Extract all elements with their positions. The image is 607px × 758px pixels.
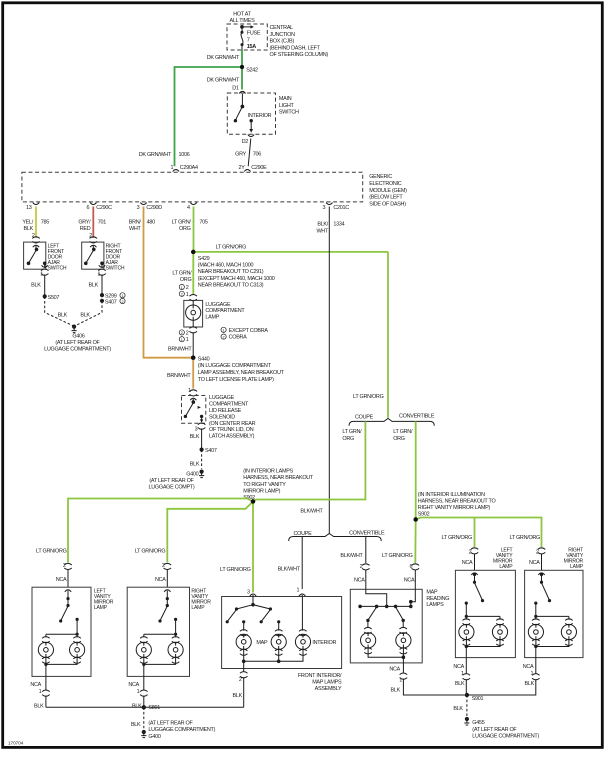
svg-text:SOLENOID: SOLENOID [209, 414, 235, 420]
front interior internals [226, 595, 307, 636]
main light switch pin D1 [232, 86, 245, 94]
wire LT GRN/ORG S902 to left vanity lamp [36, 499, 253, 563]
svg-text:(IN LUGGAGE COMPARTMENT: (IN LUGGAGE COMPARTMENT [198, 363, 272, 369]
GEM pin 6 C290C [86, 203, 112, 211]
svg-text:LT GRN/ORG: LT GRN/ORG [509, 535, 540, 541]
svg-text:GRY/: GRY/ [78, 219, 91, 225]
svg-text:SWITCH: SWITCH [48, 265, 67, 271]
svg-text:CENTRAL: CENTRAL [270, 25, 294, 31]
convertible right vanity pin 2 [529, 548, 545, 571]
pin 2Y connector C290E at GEM [239, 165, 268, 172]
wire BLK solenoid to S407 [190, 429, 202, 450]
svg-text:BLK: BLK [131, 722, 141, 728]
svg-text:(AT LEFT REAR OF: (AT LEFT REAR OF [55, 340, 100, 346]
main light switch label [279, 96, 299, 116]
front interior pin 2 exit [233, 661, 248, 707]
svg-text:BLK: BLK [34, 703, 44, 709]
svg-text:(MACH 460, MACH 1000: (MACH 460, MACH 1000 [198, 263, 254, 269]
luggage compartment lamp box [184, 300, 203, 327]
svg-text:COMPARTMENT: COMPARTMENT [205, 308, 245, 314]
wire BLK dashed to G406 [45, 296, 74, 326]
svg-text:MAP: MAP [426, 590, 438, 596]
right vanity pin 1 exit [128, 664, 147, 709]
svg-text:OF STEERING COLUMN): OF STEERING COLUMN) [270, 52, 329, 58]
svg-text:BRN/WHT: BRN/WHT [167, 373, 191, 379]
svg-text:BLK: BLK [58, 313, 68, 319]
svg-text:C290E: C290E [251, 165, 267, 171]
wire LT GRN/ORG S429 to luggage lamp [172, 252, 193, 295]
svg-text:NCA: NCA [523, 664, 534, 670]
svg-text:3: 3 [195, 426, 198, 432]
svg-text:INTERIOR: INTERIOR [312, 640, 336, 646]
left vanity pin 2 [56, 563, 72, 587]
map reading pin 1 exit [389, 663, 464, 695]
wire BLK dashed to G406 [75, 301, 102, 326]
svg-text:S901: S901 [472, 696, 484, 702]
GEM pin 13 [26, 203, 39, 211]
svg-text:BLK: BLK [455, 681, 465, 687]
harness split coupe/convertible green [349, 413, 435, 425]
svg-text:BLK: BLK [24, 226, 34, 232]
svg-text:ORG: ORG [393, 436, 405, 442]
svg-text:S507: S507 [48, 295, 60, 301]
svg-text:NEAR BREAKOUT TO C291): NEAR BREAKOUT TO C291) [198, 269, 264, 275]
luggage lamp top connector [189, 295, 197, 301]
svg-text:READING: READING [426, 596, 449, 602]
svg-text:LT GRN/ORG: LT GRN/ORG [36, 549, 67, 555]
svg-text:BLK: BLK [233, 693, 243, 699]
svg-text:NCA: NCA [462, 560, 473, 566]
GEM label [369, 174, 407, 207]
svg-text:(EXCEPT MACH 460, MACH 1000: (EXCEPT MACH 460, MACH 1000 [198, 276, 275, 282]
svg-text:BLK: BLK [391, 688, 401, 694]
svg-text:2: 2 [223, 335, 225, 339]
svg-text:LT GRN/: LT GRN/ [342, 429, 362, 435]
wire BRN/WHT S440 to solenoid [167, 358, 193, 389]
svg-text:G455: G455 [472, 720, 484, 726]
wire branch to convertible left vanity [441, 518, 474, 548]
map reading lamps label [426, 590, 449, 608]
svg-text:2: 2 [181, 293, 183, 297]
svg-text:LAMPS: LAMPS [426, 602, 444, 608]
svg-text:LT GRN/ORG: LT GRN/ORG [135, 549, 166, 555]
svg-text:G400: G400 [186, 471, 198, 477]
svg-text:SIDE OF DASH): SIDE OF DASH) [369, 201, 406, 207]
svg-text:WHT: WHT [316, 228, 328, 234]
pin 1 connector C290A4 at GEM [170, 165, 198, 172]
wire GRY 706 to GEM [235, 139, 261, 167]
svg-text:MAP LAMPS: MAP LAMPS [312, 680, 342, 686]
svg-text:BLK: BLK [453, 706, 463, 712]
svg-text:BLK: BLK [190, 434, 200, 440]
svg-text:HOT AT: HOT AT [233, 11, 251, 17]
front interior map lamps label [298, 673, 342, 692]
wire DK GRN/WHT S242 to main light switch [207, 67, 242, 90]
left door switch internals [27, 245, 48, 268]
luggage lamp alt pin labels top [179, 284, 189, 297]
convertible left vanity mirror lamp box [455, 570, 515, 657]
svg-text:1: 1 [186, 292, 189, 298]
splice S407 trunk [200, 448, 217, 455]
svg-text:NCA: NCA [354, 578, 365, 584]
svg-text:D2: D2 [242, 139, 249, 145]
lamp bottom connectors [42, 639, 573, 663]
splice dot overlays [191, 65, 418, 522]
wire BLK dashed to G400 [190, 450, 202, 469]
svg-text:2Y: 2Y [239, 165, 246, 171]
svg-text:C290A4: C290A4 [180, 165, 198, 171]
svg-text:BLK/WHT: BLK/WHT [300, 509, 323, 515]
splice S242 [240, 65, 258, 73]
svg-text:ALL TIMES: ALL TIMES [230, 18, 256, 24]
svg-text:(BEHIND DASH, LEFT: (BEHIND DASH, LEFT [270, 45, 321, 51]
splice S901 [465, 693, 484, 702]
fuse label [247, 31, 261, 51]
svg-text:DK GRN/WHT: DK GRN/WHT [207, 55, 240, 61]
wire BRN/WHT lamp to S440 [168, 332, 193, 358]
main light switch dashed box [227, 93, 275, 134]
svg-text:1: 1 [399, 677, 402, 683]
svg-text:1334: 1334 [333, 222, 344, 228]
svg-text:1006: 1006 [179, 152, 190, 158]
GEM pin 3 C290D [137, 203, 163, 211]
svg-text:(ON CENTER REAR: (ON CENTER REAR [209, 421, 256, 427]
svg-text:SWITCH: SWITCH [279, 110, 299, 116]
GEM pin 3 C201C [322, 203, 349, 211]
left vanity mirror lamp box [32, 587, 91, 676]
svg-text:S429: S429 [198, 256, 210, 262]
svg-text:LUGGAGE COMPT): LUGGAGE COMPT) [149, 484, 195, 490]
svg-text:HARNESS, NEAR BREAKOUT TO: HARNESS, NEAR BREAKOUT TO [418, 498, 496, 504]
wire BLK dashed to G400 bottom [131, 707, 144, 729]
legend except cobra / cobra [221, 327, 268, 341]
wire LT GRN/ORG coupe branch to S902 [253, 421, 365, 501]
convertible left vanity pin 1 exit [453, 647, 470, 696]
svg-text:S242: S242 [246, 67, 258, 73]
wire BLK/WHT 1334 [300, 207, 344, 534]
GEM pin 4 [187, 203, 197, 211]
svg-text:6: 6 [86, 205, 89, 211]
left front door ajar switch box [24, 242, 46, 269]
svg-text:701: 701 [98, 219, 106, 225]
svg-text:1: 1 [39, 689, 42, 695]
svg-text:DK GRN/WHT: DK GRN/WHT [139, 152, 172, 158]
svg-text:LT GRN/ORG: LT GRN/ORG [216, 245, 247, 251]
svg-text:2: 2 [186, 285, 189, 291]
front interior map lamps box [222, 597, 342, 669]
right door switch internals [84, 245, 105, 268]
svg-text:BLK: BLK [31, 283, 41, 289]
svg-text:(AT LEFT REAR OF: (AT LEFT REAR OF [149, 478, 194, 484]
svg-text:LUGGAGE COMPARTMENT): LUGGAGE COMPARTMENT) [44, 347, 111, 353]
svg-text:G400: G400 [148, 734, 160, 740]
svg-text:3: 3 [137, 205, 140, 211]
svg-text:785: 785 [41, 219, 49, 225]
wire LT GRN/ORG S902 to right vanity lamp [135, 502, 253, 563]
svg-text:LT GRN/: LT GRN/ [172, 219, 192, 225]
map reading lamps internals [358, 589, 415, 633]
convertible right vanity internals [532, 573, 573, 625]
svg-text:ORG: ORG [179, 226, 191, 232]
solenoid label [209, 395, 256, 439]
wire LT GRN/ORG convertible branch [393, 421, 416, 519]
solenoid internals [184, 398, 204, 422]
svg-text:G406: G406 [72, 333, 84, 339]
svg-text:BLK: BLK [89, 283, 99, 289]
wire BLK dashed to G455 [453, 695, 467, 716]
svg-text:ORG: ORG [180, 277, 192, 283]
svg-text:LT GRN/ORG: LT GRN/ORG [220, 567, 251, 573]
svg-text:MODULE (GEM): MODULE (GEM) [369, 188, 407, 194]
svg-text:BLK: BLK [525, 681, 535, 687]
main light switch pin D2 [242, 135, 255, 145]
wire BRN/WHT 480 GEM to S440 [129, 207, 193, 358]
svg-text:FUSE: FUSE [247, 31, 261, 37]
right front door ajar switch box [82, 242, 104, 269]
right vanity pin 2 [155, 563, 171, 587]
svg-text:LUGGAGE COMPARTMENT): LUGGAGE COMPARTMENT) [148, 727, 215, 733]
wire DK GRN/WHT 1006 S242 to GEM [139, 67, 242, 166]
svg-text:C290C: C290C [96, 205, 112, 211]
svg-text:LAMP: LAMP [94, 605, 108, 611]
svg-text:LT GRN/ORG: LT GRN/ORG [441, 535, 472, 541]
svg-text:BLK: BLK [132, 703, 142, 709]
svg-text:WHT: WHT [129, 226, 141, 232]
svg-text:1: 1 [137, 689, 140, 695]
svg-text:RIGHT VANITY MIRROR LAMP): RIGHT VANITY MIRROR LAMP) [418, 505, 491, 511]
wire LT GRN/ORG 705 GEM to S429 [172, 207, 208, 252]
convertible left vanity bulbs [459, 624, 508, 648]
left vanity label [94, 588, 114, 611]
svg-text:HARNESS, NEAR BREAKOUT: HARNESS, NEAR BREAKOUT [243, 475, 314, 481]
svg-text:BRN/: BRN/ [129, 219, 142, 225]
svg-text:LID RELEASE: LID RELEASE [209, 408, 242, 414]
wire BLK to S507 [31, 275, 45, 297]
wire BLK to S299 [89, 275, 102, 296]
svg-text:7: 7 [247, 37, 250, 43]
luggage compartment lamp label [205, 302, 245, 320]
svg-text:1: 1 [181, 286, 183, 290]
left vanity bulbs [38, 642, 84, 666]
svg-text:LAMP: LAMP [570, 564, 584, 570]
right door switch pin 2 [89, 233, 97, 243]
svg-text:CONVERTIBLE: CONVERTIBLE [349, 531, 385, 537]
svg-text:ELECTRONIC: ELECTRONIC [369, 181, 402, 187]
splice S507 [43, 294, 60, 301]
svg-text:CONVERTIBLE: CONVERTIBLE [399, 413, 435, 419]
svg-text:JUNCTION: JUNCTION [270, 32, 296, 38]
svg-text:13: 13 [26, 205, 32, 211]
solenoid pin 3 [195, 423, 206, 432]
svg-text:1: 1 [186, 337, 189, 343]
svg-text:LIGHT: LIGHT [279, 103, 295, 109]
svg-text:480: 480 [147, 219, 155, 225]
svg-text:BRN/WHT: BRN/WHT [168, 347, 192, 353]
svg-text:LT GRN/: LT GRN/ [172, 271, 192, 277]
svg-text:1: 1 [121, 294, 123, 298]
node HOT AT ALL TIMES [230, 11, 256, 24]
solenoid pin 1 [188, 388, 197, 396]
left vanity pin 1 exit [30, 664, 49, 709]
luggage lid release solenoid box [182, 396, 206, 424]
svg-text:(AT LEFT REAR OF: (AT LEFT REAR OF [148, 720, 193, 726]
ground G406 [44, 325, 111, 353]
svg-text:1: 1 [40, 271, 43, 277]
right vanity label [191, 588, 211, 611]
right vanity mirror lamp box [127, 587, 189, 676]
splice S902 interior lamps harness [243, 469, 314, 504]
svg-text:NCA: NCA [389, 666, 400, 672]
wire LT GRN/ORG S429 branch right [193, 245, 388, 252]
wire LT GRN/ORG S902 to map lamps assembly [220, 502, 253, 593]
splice S801 [142, 705, 161, 711]
wire DK GRN/WHT fuse to S242 [207, 50, 242, 67]
svg-text:DK GRN/WHT: DK GRN/WHT [207, 78, 240, 84]
svg-text:LUGGAGE: LUGGAGE [209, 395, 235, 401]
svg-text:TO LEFT LICENSE PLATE LAMP): TO LEFT LICENSE PLATE LAMP) [198, 377, 274, 383]
convertible left vanity internals [463, 573, 504, 625]
left door switch pin 2 [32, 233, 40, 243]
svg-text:BOX (CJB): BOX (CJB) [270, 39, 295, 45]
convertible right vanity label [564, 548, 584, 571]
svg-text:GRY: GRY [235, 152, 246, 158]
fuse F7 15A [241, 31, 244, 50]
svg-text:GENERIC: GENERIC [369, 174, 392, 180]
svg-text:LT GRN/: LT GRN/ [393, 429, 413, 435]
left door switch pin 1 [40, 269, 48, 277]
svg-text:COBRA: COBRA [229, 335, 248, 341]
switch INTERIOR position [248, 113, 272, 132]
right vanity internals [140, 590, 179, 643]
svg-text:1: 1 [296, 587, 299, 593]
ground G455 [464, 717, 539, 740]
svg-text:S440: S440 [198, 356, 210, 362]
svg-text:NCA: NCA [453, 664, 464, 670]
splice S440 [191, 356, 285, 383]
svg-text:(BELOW LEFT: (BELOW LEFT [369, 195, 403, 201]
front interior pin 3 [247, 590, 256, 596]
svg-text:15A: 15A [247, 44, 256, 50]
svg-text:NCA: NCA [155, 577, 166, 583]
ground G400 bottom [141, 720, 215, 739]
svg-text:LT GRN/ORG: LT GRN/ORG [353, 394, 384, 400]
right front door ajar switch label [106, 243, 125, 271]
GEM module dashed box [22, 172, 363, 202]
map reading pin 6 [404, 564, 419, 590]
svg-text:YEL/: YEL/ [22, 219, 33, 225]
left vanity internals [42, 590, 81, 643]
svg-text:LAMP: LAMP [205, 314, 219, 320]
svg-text:2: 2 [186, 330, 189, 336]
svg-text:LAMP ASSEMBLY, NEAR BREAKOUT: LAMP ASSEMBLY, NEAR BREAKOUT [198, 370, 285, 376]
wire feed inside CJB [240, 25, 254, 32]
svg-text:4: 4 [187, 205, 190, 211]
svg-text:COMPARTMENT: COMPARTMENT [209, 402, 249, 408]
convertible left vanity pin 2 [462, 548, 479, 571]
splice S902 interior illumination harness [414, 492, 496, 522]
svg-text:1: 1 [181, 338, 183, 342]
svg-text:NCA: NCA [30, 682, 41, 688]
svg-text:BLK/WHT: BLK/WHT [340, 553, 363, 559]
right vanity bulbs [136, 642, 183, 666]
svg-text:LT GRN/ORG: LT GRN/ORG [382, 553, 413, 559]
svg-text:INTERIOR: INTERIOR [248, 113, 272, 119]
svg-text:2: 2 [121, 300, 123, 304]
svg-text:OF TRUNK LID, ON: OF TRUNK LID, ON [209, 427, 254, 433]
svg-text:S801: S801 [148, 705, 160, 711]
luggage lamp bulb [186, 300, 201, 327]
svg-text:MAP: MAP [256, 640, 268, 646]
svg-text:705: 705 [199, 219, 207, 225]
svg-text:COUPE: COUPE [294, 531, 313, 537]
CJB label [270, 25, 329, 58]
svg-text:1: 1 [98, 271, 101, 277]
svg-text:LAMP: LAMP [191, 605, 205, 611]
svg-text:C290D: C290D [146, 205, 162, 211]
front interior pin 1 [296, 587, 305, 596]
svg-text:170704: 170704 [8, 741, 24, 746]
svg-text:ASSEMBLY: ASSEMBLY [315, 686, 342, 692]
main light switch internals [234, 94, 245, 123]
ground G400 trunk [149, 470, 205, 491]
svg-text:MAIN: MAIN [279, 96, 292, 102]
svg-text:BLK: BLK [80, 313, 90, 319]
svg-text:NCA: NCA [56, 577, 67, 583]
svg-text:SWITCH: SWITCH [106, 265, 125, 271]
svg-text:BLK/WHT: BLK/WHT [278, 567, 301, 573]
luggage lamp alt pin labels bottom [179, 330, 189, 343]
front interior lamp bulbs MAP and INTERIOR [236, 634, 336, 663]
luggage lamp bottom connector [189, 327, 197, 333]
svg-text:LATCH ASSEMBLY): LATCH ASSEMBLY) [209, 434, 255, 440]
ground bus to S801 [46, 706, 244, 708]
wire BLK/WHT coupe branch [278, 537, 303, 590]
svg-text:LUGGAGE COMPARTMENT): LUGGAGE COMPARTMENT) [472, 734, 539, 740]
svg-text:BLK: BLK [190, 462, 200, 468]
svg-text:2: 2 [181, 331, 183, 335]
wire BLK/WHT convertible map branch [340, 537, 365, 564]
convertible right vanity pin 1 exit [469, 647, 540, 696]
svg-text:3: 3 [322, 205, 325, 211]
svg-text:C201C: C201C [333, 205, 349, 211]
splice S299 [100, 293, 125, 300]
svg-text:(IN INTERIOR ILLUMINATION: (IN INTERIOR ILLUMINATION [418, 492, 485, 498]
splice S407 [100, 298, 125, 305]
svg-text:NCA: NCA [404, 578, 415, 584]
left front door ajar switch label [48, 243, 67, 271]
svg-text:706: 706 [253, 152, 261, 158]
svg-text:EXCEPT COBRA: EXCEPT COBRA [229, 328, 269, 334]
map reading pin 2 [354, 564, 370, 590]
svg-text:MIRROR LAMP): MIRROR LAMP) [243, 488, 280, 494]
svg-text:COUPE: COUPE [355, 415, 374, 421]
svg-text:1: 1 [223, 329, 225, 333]
wire LT GRN/ORG to convertible vanity lamps [416, 518, 542, 548]
svg-text:S407: S407 [105, 299, 117, 305]
wire LT GRN/ORG S902 to map reading lamps [382, 520, 416, 564]
svg-text:1: 1 [170, 165, 173, 171]
svg-text:NEAR BREAKOUT TO C313): NEAR BREAKOUT TO C313) [198, 282, 264, 288]
wire YEL/BLK 785 [22, 207, 49, 238]
svg-text:(IN INTERIOR LAMPS: (IN INTERIOR LAMPS [243, 469, 293, 475]
svg-text:2: 2 [239, 677, 242, 683]
harness split coupe/convertible black [289, 531, 385, 541]
svg-text:LAMP: LAMP [499, 564, 513, 570]
svg-text:RED: RED [80, 226, 91, 232]
convertible right vanity bulbs [528, 624, 576, 648]
splice S429 [191, 250, 275, 289]
svg-text:NCA: NCA [529, 560, 540, 566]
